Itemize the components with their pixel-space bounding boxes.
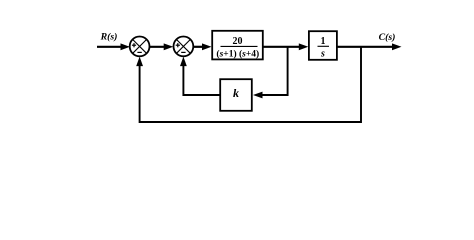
label C(s) bbox=[379, 32, 396, 43]
summing junction S1 bbox=[130, 37, 150, 57]
block G1 transfer function 20/((s+1)(s+4)) bbox=[212, 31, 263, 60]
wire k block to summing junction S2 bbox=[180, 57, 220, 95]
label R(s) bbox=[100, 32, 118, 43]
summing junction S2 bbox=[174, 37, 194, 57]
block G2 integrator 1/s bbox=[309, 31, 337, 60]
wire G1 to G2 with takeoff node T1 bbox=[263, 43, 308, 50]
wire outer feedback takeoff T2 to summing junction S1 bbox=[136, 47, 361, 122]
svg-text:R(s): R(s) bbox=[100, 32, 118, 43]
wire S2 to block G1 bbox=[193, 43, 211, 50]
svg-text:C(s): C(s) bbox=[379, 32, 396, 43]
block k bbox=[220, 79, 252, 111]
wire S1 to S2 bbox=[150, 43, 174, 50]
svg-text:s: s bbox=[320, 49, 325, 60]
wire inner feedback takeoff T1 down to k block bbox=[253, 47, 288, 99]
wire output with takeoff node T2 bbox=[337, 43, 402, 50]
svg-text:20: 20 bbox=[233, 36, 243, 47]
svg-text:1: 1 bbox=[321, 36, 326, 47]
wire input arrow into summing junction S1 bbox=[97, 43, 130, 50]
svg-text:k: k bbox=[233, 86, 239, 100]
svg-text:(s+1) (s+4): (s+1) (s+4) bbox=[216, 48, 259, 59]
